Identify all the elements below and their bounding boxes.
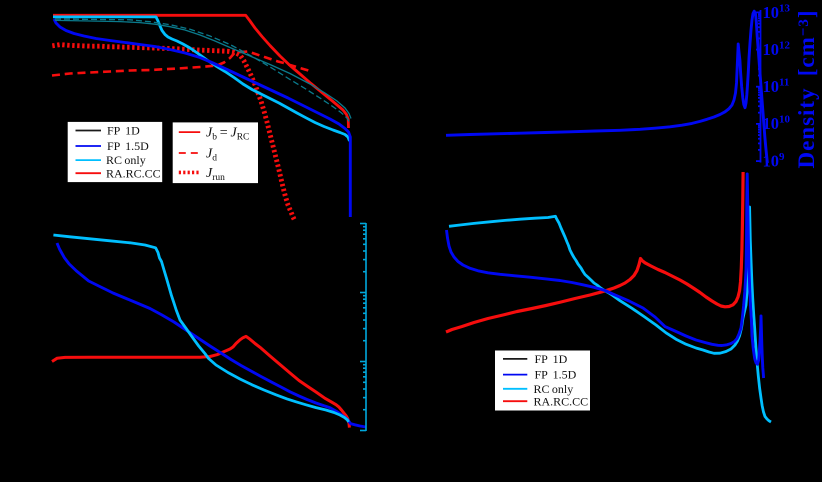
- curve J_run thick dotted red: [52, 45, 295, 221]
- svg-text:FP 1.5D: FP 1.5D: [107, 139, 149, 153]
- curve RC only cyan: [449, 207, 771, 422]
- curve FP 1.5D blue thick: [54, 19, 350, 217]
- curve J_b solid red (RA.RC.CC): [53, 15, 349, 128]
- svg-text:FP 1D: FP 1D: [107, 124, 140, 138]
- thin teal curve 1: [55, 20, 351, 118]
- cyan right axis spine: [360, 223, 366, 431]
- svg-text:RC only: RC only: [106, 153, 146, 167]
- curve RC only cyan: [53, 235, 348, 422]
- curve FP 1.5D blue: [57, 243, 366, 427]
- curve RA.RC.CC red: [52, 336, 349, 427]
- svg-text:RA.RC.CC: RA.RC.CC: [534, 394, 589, 408]
- curve J_d dashed red: [52, 52, 312, 76]
- blue axis tick labels: [763, 3, 791, 171]
- curve RC-only cyan thick: [53, 17, 350, 141]
- blue density right axis: [756, 10, 761, 163]
- svg-text:FP 1D: FP 1D: [535, 352, 568, 366]
- svg-text:FP 1.5D: FP 1.5D: [535, 368, 577, 382]
- thin teal curve 2 dashed: [55, 19, 350, 123]
- curve RA.RC.CC red: [446, 172, 743, 332]
- svg-text:RA.RC.CC: RA.RC.CC: [106, 166, 161, 180]
- curve FP 1.5D blue: [447, 174, 764, 378]
